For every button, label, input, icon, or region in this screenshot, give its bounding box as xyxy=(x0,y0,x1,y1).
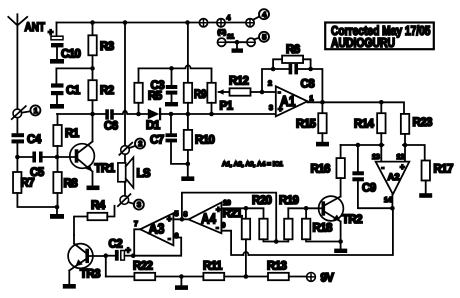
capacitor C3 xyxy=(171,68,173,85)
resistor R21 xyxy=(245,208,247,218)
node A2 out xyxy=(391,194,393,208)
svg-text:R22: R22 xyxy=(133,261,153,273)
resistor R5 xyxy=(134,83,142,103)
svg-text:LS: LS xyxy=(137,168,151,180)
power plus row xyxy=(199,16,259,27)
wire A1 output rail xyxy=(308,102,405,114)
op-amp A3 xyxy=(140,213,173,245)
wire bottom rail left xyxy=(106,276,135,278)
svg-text:+: + xyxy=(400,163,405,172)
svg-text:9: 9 xyxy=(222,223,226,230)
resistor R18 xyxy=(305,208,307,218)
svg-text:R10: R10 xyxy=(195,135,215,147)
svg-text:2: 2 xyxy=(268,81,272,88)
svg-text:3: 3 xyxy=(269,105,273,112)
ground bottom rail xyxy=(179,274,184,279)
ground TR2 xyxy=(338,239,343,244)
svg-text:C8: C8 xyxy=(301,79,316,91)
resistor R8 xyxy=(57,157,59,172)
wire rail L xyxy=(133,238,181,256)
capacitor C2 xyxy=(106,255,115,257)
wire LS drop xyxy=(124,23,126,146)
svg-text:R1: R1 xyxy=(65,128,80,140)
resistor R17 xyxy=(422,161,430,181)
svg-text:C3: C3 xyxy=(151,80,165,92)
resistor R12 xyxy=(224,91,230,93)
svg-text:6: 6 xyxy=(175,233,179,240)
svg-text:13: 13 xyxy=(372,154,380,161)
svg-text:R12: R12 xyxy=(229,76,249,88)
capacitor C5 xyxy=(32,152,42,163)
node 3 xyxy=(118,194,144,209)
wire TR3 base xyxy=(89,255,106,257)
capacitor C8 xyxy=(273,68,289,70)
resistor R1 xyxy=(57,114,59,125)
node 5 xyxy=(259,32,269,42)
resistor R2 xyxy=(92,68,94,80)
svg-text:R11: R11 xyxy=(203,261,223,273)
node 2 xyxy=(119,139,145,155)
svg-text:R20: R20 xyxy=(252,195,272,207)
resistor R6 xyxy=(282,56,303,63)
svg-text:TR2: TR2 xyxy=(342,214,362,226)
svg-text:C6: C6 xyxy=(104,121,118,133)
svg-text:C4: C4 xyxy=(27,134,42,146)
transistor TR1 xyxy=(70,114,100,190)
svg-text:R18: R18 xyxy=(313,223,334,235)
node A1 pin2 xyxy=(260,90,265,95)
svg-text:TR1: TR1 xyxy=(95,163,116,175)
svg-text:A3: A3 xyxy=(149,222,165,238)
svg-text:5: 5 xyxy=(262,32,266,41)
svg-text:C1: C1 xyxy=(66,85,81,97)
wire C8 node to A1 out xyxy=(311,69,323,102)
svg-text:R15: R15 xyxy=(296,119,317,131)
wire C10 drop xyxy=(56,23,58,37)
resistor R19 xyxy=(287,208,289,218)
diode D1 xyxy=(148,109,160,119)
antenna ANT xyxy=(8,14,27,109)
resistor R10 xyxy=(187,114,189,130)
resistor R9 xyxy=(184,83,192,103)
svg-text:C9: C9 xyxy=(362,183,376,195)
svg-text:A2: A2 xyxy=(388,172,400,183)
svg-text:R13: R13 xyxy=(267,261,287,273)
wire C1 top rail xyxy=(56,67,92,69)
resistor R3 xyxy=(90,20,95,25)
node A3/A4 junction xyxy=(173,218,188,220)
wire feedback top xyxy=(182,193,276,242)
svg-text:4: 4 xyxy=(227,15,231,22)
svg-text:9V: 9V xyxy=(321,273,335,285)
capacitor C7 xyxy=(169,112,174,117)
wire A4 pin9 xyxy=(221,231,243,255)
wire C5 row xyxy=(17,156,57,158)
svg-text:R16: R16 xyxy=(311,164,331,176)
svg-text:R3: R3 xyxy=(100,41,114,53)
svg-text:R19: R19 xyxy=(279,195,299,207)
feedback R6 C8 loop xyxy=(262,69,273,92)
svg-text:-: - xyxy=(278,88,281,97)
svg-text:R4: R4 xyxy=(91,200,106,212)
svg-text:AUDIOGURU: AUDIOGURU xyxy=(331,36,395,50)
resistor R15 xyxy=(321,102,323,113)
wire hop over R21 lead xyxy=(243,252,248,255)
svg-text:ANT: ANT xyxy=(25,20,46,34)
resistor R4 xyxy=(74,217,88,236)
svg-text:+: + xyxy=(167,215,172,224)
wire A2 out down to rail xyxy=(249,208,393,255)
resistor R7 xyxy=(16,157,18,172)
svg-text:R7: R7 xyxy=(21,178,35,190)
svg-text:7: 7 xyxy=(134,221,138,228)
svg-text:TR3: TR3 xyxy=(80,269,100,281)
capacitor C6 xyxy=(105,109,113,119)
svg-text:-: - xyxy=(382,163,385,172)
node LS drop xyxy=(123,20,128,25)
transistor TR2 xyxy=(319,196,344,241)
node C4/C5/R7 xyxy=(15,155,20,160)
svg-text:+: + xyxy=(126,245,131,255)
resistor R14 xyxy=(380,102,382,113)
capacitor C1 xyxy=(51,83,64,95)
svg-text:C2: C2 xyxy=(109,239,123,251)
svg-text:4: 4 xyxy=(262,10,266,19)
transistor TR3 xyxy=(63,235,93,289)
wire detector rail xyxy=(57,111,276,114)
op-amp A1 xyxy=(276,86,308,116)
corrected box xyxy=(325,23,434,50)
speaker LS xyxy=(124,154,126,163)
svg-text:5: 5 xyxy=(175,211,179,218)
resistor R22 xyxy=(134,273,155,280)
svg-text:+: + xyxy=(216,205,221,214)
wire A3 out to C2 xyxy=(134,229,140,255)
svg-text:1: 1 xyxy=(34,106,38,115)
wire A4 pin10 xyxy=(221,208,263,218)
ground C7 R10 xyxy=(187,164,189,177)
power minus row xyxy=(218,38,260,53)
ground R7 R8 xyxy=(55,205,60,210)
svg-text:A1, A2, A3, A4 = IC1: A1, A2, A3, A4 = IC1 xyxy=(222,161,283,168)
svg-text:R17: R17 xyxy=(434,164,454,176)
wire C4 to C5 row xyxy=(16,143,18,157)
wire base TR1 xyxy=(57,156,75,158)
svg-text:R6: R6 xyxy=(286,44,300,56)
svg-text:3: 3 xyxy=(137,200,141,209)
wire top rail xyxy=(57,22,200,24)
svg-text:11: 11 xyxy=(227,33,234,40)
svg-text:D1: D1 xyxy=(146,120,161,132)
svg-text:8: 8 xyxy=(184,212,188,219)
svg-text:P1: P1 xyxy=(220,101,234,113)
node 1 xyxy=(12,105,41,119)
svg-text:R14: R14 xyxy=(354,119,375,131)
resistor R20 xyxy=(259,219,267,240)
svg-text:C7: C7 xyxy=(150,135,164,147)
op-amp A2 xyxy=(376,162,410,195)
resistor R11 xyxy=(203,273,224,280)
svg-text:R8: R8 xyxy=(64,178,79,190)
svg-text:-: - xyxy=(216,223,219,232)
svg-text:1: 1 xyxy=(310,95,314,102)
svg-text:+: + xyxy=(48,27,53,37)
svg-text:10: 10 xyxy=(223,200,231,207)
svg-text:R5: R5 xyxy=(148,91,163,103)
svg-text:R9: R9 xyxy=(194,89,207,101)
svg-text:2: 2 xyxy=(138,139,142,148)
capacitor C9 xyxy=(357,145,359,171)
potentiometer P1 xyxy=(207,83,215,103)
node 4 xyxy=(259,9,269,19)
wire R9 drop from top rail xyxy=(185,20,190,25)
svg-text:R2: R2 xyxy=(100,85,114,97)
svg-text:-: - xyxy=(168,234,171,243)
wire node1 to C4 xyxy=(16,118,18,133)
capacitor C10 xyxy=(50,36,64,63)
svg-text:+: + xyxy=(278,105,283,114)
resistor R13 xyxy=(268,273,289,280)
wire AGC rail xyxy=(139,65,212,68)
node A2 pin12 rail xyxy=(403,143,408,148)
svg-text:12: 12 xyxy=(397,154,405,161)
svg-text:(C): (C) xyxy=(218,29,227,36)
op-amp A4 xyxy=(189,203,222,234)
svg-text:14: 14 xyxy=(384,197,392,204)
resistor R23 xyxy=(401,114,409,134)
node TR1 base xyxy=(55,155,60,160)
node A2 pin13 rail xyxy=(379,143,384,148)
svg-text:R21: R21 xyxy=(223,208,244,220)
svg-text:C10: C10 xyxy=(61,49,81,61)
svg-text:A4: A4 xyxy=(201,212,216,228)
svg-text:R23: R23 xyxy=(413,117,433,129)
wire TR3 base drop xyxy=(105,256,107,277)
wire R7 bottom xyxy=(17,193,57,207)
9V supply xyxy=(307,273,316,282)
resistor R16 xyxy=(336,158,344,178)
capacitor C4 xyxy=(12,133,25,143)
